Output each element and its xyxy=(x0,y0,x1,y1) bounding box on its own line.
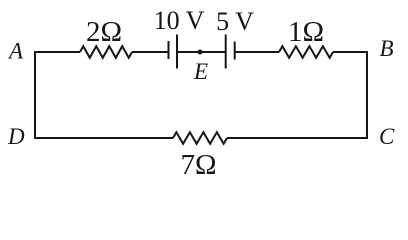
battery 10 V : long (positive) plate xyxy=(176,35,178,69)
battery 10 V : short (negative) plate xyxy=(168,41,170,59)
svg-text:5 V: 5 V xyxy=(216,7,254,36)
svg-text:10 V: 10 V xyxy=(154,6,205,35)
wire: 10 V battery to 5 V battery through node E xyxy=(177,51,226,53)
resistor 1Ω xyxy=(279,46,333,58)
svg-text:C: C xyxy=(379,124,395,149)
wire: 7Ω resistor to C xyxy=(227,137,368,139)
battery 5 V : short (negative) plate xyxy=(234,42,236,60)
node E junction dot xyxy=(198,50,203,55)
svg-text:7Ω: 7Ω xyxy=(180,149,216,181)
wire: left side A to D xyxy=(34,52,36,138)
svg-text:D: D xyxy=(7,124,25,149)
svg-text:A: A xyxy=(7,39,24,64)
resistor 2Ω xyxy=(80,46,132,58)
svg-text:1Ω: 1Ω xyxy=(288,16,324,48)
battery 5 V : long (positive) plate xyxy=(225,35,227,69)
wire: right side B to C xyxy=(366,52,368,138)
svg-text:B: B xyxy=(380,36,394,61)
resistor 7Ω xyxy=(173,132,227,144)
wire: bottom, D to 7Ω resistor xyxy=(34,137,173,139)
wire: 1Ω resistor to B xyxy=(333,51,368,53)
wire: 5 V battery to 1Ω resistor xyxy=(235,51,279,53)
wire: 2Ω resistor to 10 V battery xyxy=(132,51,169,53)
svg-text:E: E xyxy=(193,59,208,84)
wire: top, A to 2Ω resistor xyxy=(34,51,80,53)
svg-text:2Ω: 2Ω xyxy=(86,16,122,48)
